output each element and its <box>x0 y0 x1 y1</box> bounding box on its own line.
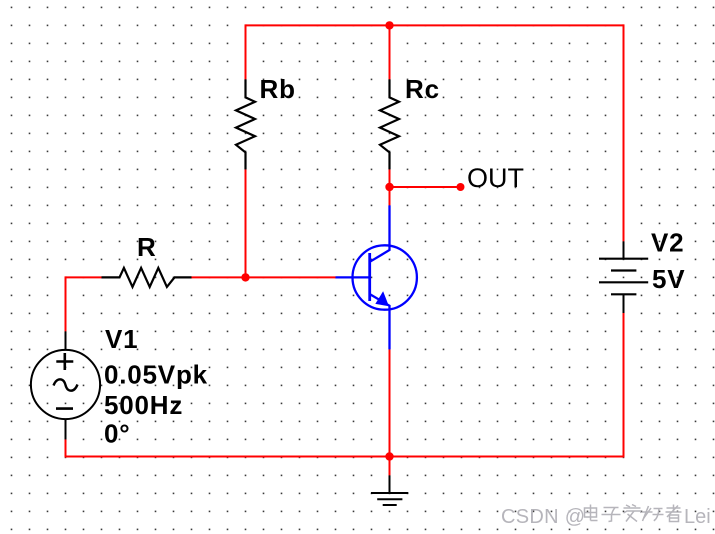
ground <box>371 475 408 505</box>
wire OUT horizontal <box>390 186 461 188</box>
wire left column V1 bottom <box>65 439 67 457</box>
svg-text:0.05Vpk: 0.05Vpk <box>104 360 208 390</box>
wire Rc bottom to OUT node <box>389 169 391 187</box>
wire ground red stub <box>389 457 391 476</box>
junction top node <box>385 21 393 29</box>
resistor Rc <box>380 79 399 169</box>
wire right column V2 bottom <box>623 313 625 458</box>
svg-text:Rc: Rc <box>405 74 440 104</box>
junction base node <box>241 273 249 281</box>
wire base horizontal right of R <box>192 276 336 278</box>
wire top horizontal net <box>246 24 624 26</box>
svg-text:Lei: Lei <box>684 506 711 528</box>
wire Rc top vertical <box>389 25 391 79</box>
svg-text:V2: V2 <box>651 228 684 258</box>
svg-text:5V: 5V <box>652 264 685 294</box>
svg-text:OUT: OUT <box>467 163 524 193</box>
wire Rb bottom vertical <box>245 169 247 277</box>
wire emitter red <box>389 349 391 456</box>
node OUT terminal dot <box>457 183 465 191</box>
wire collector red <box>389 187 391 205</box>
resistor Rb <box>236 79 255 169</box>
resistor R <box>102 268 192 287</box>
svg-text:R: R <box>137 232 156 262</box>
source V1 <box>31 331 100 439</box>
watermark pseudo glyphs <box>585 505 682 522</box>
wire base horizontal left of R <box>66 276 102 278</box>
battery V2 <box>599 241 648 313</box>
svg-text:500Hz: 500Hz <box>104 390 183 420</box>
wire Rb top vertical <box>245 24 247 79</box>
svg-text:0°: 0° <box>104 419 130 449</box>
svg-text:Rb: Rb <box>260 74 296 104</box>
wire left column V1 top <box>65 276 67 331</box>
svg-text:V1: V1 <box>105 324 138 354</box>
svg-text:CSDN @: CSDN @ <box>501 506 585 528</box>
transistor Q1 <box>336 205 417 349</box>
watermark CSDN <box>501 506 711 528</box>
junction ground node <box>385 452 393 460</box>
wire bottom horizontal net <box>66 456 624 458</box>
wire right column V2 top <box>623 24 625 241</box>
junction OUT node <box>385 183 393 191</box>
